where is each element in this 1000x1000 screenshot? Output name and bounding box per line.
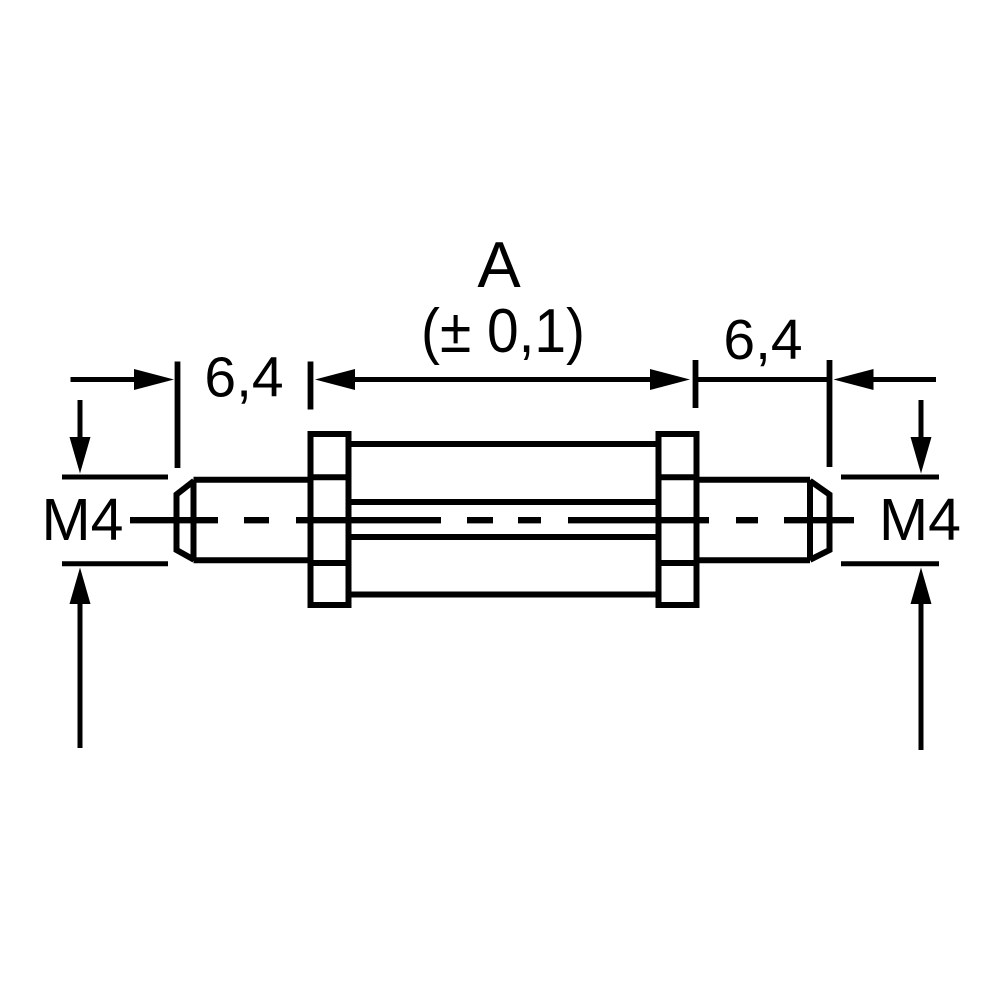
svg-text:6,4: 6,4: [204, 346, 283, 410]
center line: [130, 517, 854, 523]
right stud cylinder: [697, 480, 811, 561]
arrowhead right M4 up: [911, 568, 932, 605]
extension tick at left stud tip: [175, 362, 181, 469]
left M4 leader line up: [78, 600, 83, 748]
arrowhead right M4 down: [911, 437, 932, 474]
right M4 leader line down: [919, 400, 924, 442]
left stud chamfer boundary: [191, 480, 197, 561]
right hex flange: [659, 434, 697, 605]
left M4 leader line down: [78, 400, 83, 442]
label (± 0,1): [421, 297, 585, 366]
extension tick at right stud tip: [827, 360, 833, 467]
right stud extension lines: [841, 477, 939, 564]
svg-text:6,4: 6,4: [723, 308, 802, 372]
label A: [477, 228, 521, 301]
extension tick at left flange face: [308, 362, 314, 410]
right stud chamfer: [807, 480, 813, 561]
arrowhead left M4 down: [70, 437, 91, 474]
extension tick at right flange face: [693, 360, 699, 408]
arrowhead A right: [650, 369, 690, 390]
label M4 left: [42, 487, 124, 553]
body thread lines: [349, 502, 659, 537]
dimension line A: [352, 377, 653, 382]
svg-text:M4: M4: [42, 487, 124, 553]
left stud extension lines: [62, 477, 168, 564]
left 6,4 outside arrow shaft: [71, 377, 138, 382]
arrowhead right 6,4: [834, 369, 874, 390]
body: [349, 444, 659, 595]
svg-text:(± 0,1): (± 0,1): [421, 297, 585, 366]
arrowhead left 6,4: [134, 369, 174, 390]
right stud tip face and chamfer: [810, 481, 830, 560]
right 6,4 dimension line: [696, 377, 830, 382]
left hex flange facet lines: [311, 477, 349, 563]
right M4 leader line up: [919, 600, 924, 750]
arrowhead left M4 up: [70, 568, 91, 605]
arrowhead A left: [315, 369, 355, 390]
right hex flange facet lines: [659, 477, 697, 563]
label M4 right: [879, 487, 961, 553]
label 6,4 left: [204, 346, 283, 410]
svg-text:A: A: [477, 228, 521, 301]
left stud cylinder: [194, 480, 312, 561]
svg-text:M4: M4: [879, 487, 961, 553]
left hex flange: [311, 434, 349, 605]
label 6,4 right: [723, 308, 802, 372]
left stud tip face: [177, 481, 195, 560]
right 6,4 outside arrow shaft: [870, 377, 936, 382]
